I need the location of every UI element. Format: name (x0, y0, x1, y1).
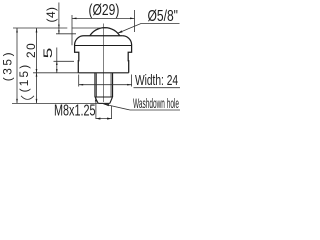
extension line O29 left (71, 15, 73, 45)
dimension stud diameter line (96, 118, 112, 120)
dimension 5 line (56, 48, 58, 73)
extension line 5dim top (54, 60, 75, 62)
housing seam line (75, 45, 132, 47)
thread root left (96, 73, 98, 97)
housing cap top (84, 35, 123, 37)
stud tip bottom (98, 102, 110, 104)
thread root right (110, 73, 112, 97)
leader washdown hole (104, 104, 181, 110)
housing right side (128, 46, 131, 73)
svg-text:(35): (35) (0, 50, 14, 81)
extension line width right (131, 75, 133, 87)
housing cap right corner (123, 36, 132, 46)
svg-text:Washdown hole: Washdown hole (133, 97, 179, 112)
extension line housing bottom level (33, 72, 78, 74)
stud chamfer shoulder (95, 96, 113, 98)
centerline (103, 24, 105, 103)
stud chamfer right (110, 97, 113, 103)
svg-text:(15): (15) (17, 63, 31, 93)
svg-text:20: 20 (24, 42, 38, 58)
svg-text:(4): (4) (44, 7, 58, 23)
dimension (O29) line (72, 17, 135, 19)
width label underline (134, 87, 181, 89)
svg-text:M8x1.25: M8x1.25 (54, 102, 96, 119)
stud outer left (94, 73, 96, 97)
dimension (35) line (16, 28, 18, 103)
break arc (21, 96, 34, 100)
extension line ball top level (13, 27, 67, 29)
extension line stud right (111, 106, 113, 120)
svg-text:Ø5/8": Ø5/8" (148, 7, 179, 25)
extension line cap top level (56, 33, 76, 35)
svg-text:(Ø29): (Ø29) (89, 1, 120, 19)
dimension (4) line (58, 3, 60, 34)
stud chamfer left (95, 97, 98, 103)
dimension width line (79, 84, 132, 86)
svg-text:Width: 24: Width: 24 (135, 71, 178, 89)
bottom reference line (12, 102, 98, 104)
leader ball diameter (117, 24, 179, 34)
housing bottom (78, 72, 128, 74)
extension line O29 right (134, 10, 136, 32)
housing left side (75, 46, 79, 73)
extension line width left (78, 75, 80, 87)
ball arc (90, 28, 120, 36)
leader thread (95, 97, 97, 119)
stud outer right (112, 73, 114, 97)
svg-text:5: 5 (42, 47, 55, 58)
housing cap left corner (75, 36, 84, 46)
dimension 20/(15) line (36, 28, 38, 103)
